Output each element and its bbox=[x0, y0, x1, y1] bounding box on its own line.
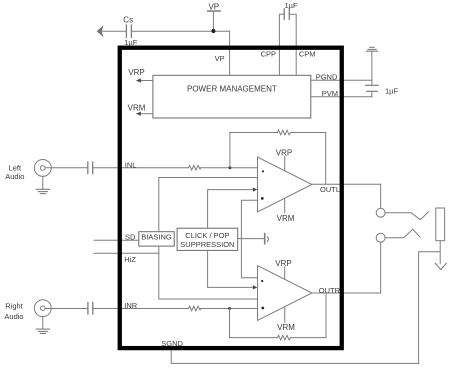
svg-text:VP: VP bbox=[215, 54, 225, 63]
wire: RI2 to op-amp U2 input bbox=[200, 308, 257, 310]
wire: feedback top left bbox=[230, 132, 278, 134]
wire: U2 feedback tap down bbox=[229, 309, 231, 338]
mark + input U2 bbox=[261, 280, 263, 282]
svg-text:Cs: Cs bbox=[123, 15, 133, 24]
label Left Audio bbox=[5, 163, 24, 181]
wire+arrow: VRM output bbox=[136, 112, 153, 116]
wire: RF1 to output bbox=[291, 133, 326, 185]
capacitor C-INR bbox=[88, 303, 93, 315]
svg-text:VRM: VRM bbox=[128, 104, 146, 113]
svg-text:1µF: 1µF bbox=[284, 1, 297, 10]
wire: J1 to ground bbox=[42, 176, 44, 189]
svg-text:OUTR: OUTR bbox=[319, 286, 341, 295]
wire: OUTL down to jack tip bbox=[380, 184, 382, 208]
wire+arrow: click/pop to U2 bbox=[208, 250, 258, 289]
wire: OUTL output bbox=[312, 183, 381, 185]
op-amp U2 bbox=[258, 266, 312, 321]
wire: VRM stub (U2) bbox=[284, 307, 286, 322]
wire: ground to PGND tee bbox=[371, 51, 373, 85]
connector J1 left audio bbox=[34, 159, 51, 176]
power management block bbox=[153, 75, 311, 118]
jack tip contact (L) bbox=[376, 208, 385, 217]
junction dot (U1 feedback tap) bbox=[229, 166, 232, 169]
capacitor Cs bbox=[126, 25, 131, 37]
svg-text:CPM: CPM bbox=[299, 50, 316, 59]
capacitor 1uF (PVM) bbox=[366, 85, 379, 91]
svg-text:VRM: VRM bbox=[277, 214, 295, 223]
wire: biasing to U2 bias input bbox=[159, 246, 258, 299]
wire: SGND out to right bbox=[171, 350, 418, 363]
wire: VRM stub (U1) bbox=[284, 199, 286, 214]
mark - input U2 bbox=[261, 307, 264, 310]
svg-text:VRP: VRP bbox=[276, 148, 292, 157]
wire: VRP stub (U2) bbox=[284, 267, 286, 279]
wire: cap bottom to PVM bbox=[371, 91, 373, 97]
wire: C-INL to INL pin and RI1 bbox=[93, 167, 189, 169]
junction dot VP node bbox=[211, 29, 215, 33]
wire: load bottom network bbox=[419, 241, 441, 364]
jack switch R bbox=[385, 229, 420, 238]
svg-text:INR: INR bbox=[124, 301, 138, 310]
mark - input U1 bbox=[261, 197, 264, 200]
ground (J2) bbox=[36, 329, 49, 333]
connector J2 right audio bbox=[34, 300, 51, 317]
svg-text:Audio: Audio bbox=[4, 312, 23, 321]
wire: VP node down into IC pin VP bbox=[229, 31, 231, 75]
wire: SD input bbox=[94, 239, 139, 241]
svg-text:1µF: 1µF bbox=[385, 86, 398, 95]
IC body bbox=[120, 48, 342, 348]
wire: click/pop to pop symbol bbox=[238, 238, 264, 240]
wire: OUTR output bbox=[312, 292, 381, 294]
wire: J1 to C-INL bbox=[45, 167, 87, 169]
capacitor C-INL bbox=[88, 162, 93, 174]
input arrow (Cs line) bbox=[97, 26, 103, 36]
wire: RI1 to op-amp U1 input bbox=[200, 167, 257, 169]
net label VP (top, underlined) bbox=[208, 3, 221, 32]
op-amp U1 bbox=[258, 157, 312, 212]
wire: PGND out bbox=[311, 79, 372, 81]
svg-text:CLICK / POP: CLICK / POP bbox=[185, 231, 229, 240]
wire: biasing to U1 bias input bbox=[159, 178, 258, 232]
wire: J2 to ground bbox=[42, 317, 44, 329]
load resistor (headphone) bbox=[436, 208, 445, 241]
label Right Audio bbox=[4, 302, 23, 321]
svg-text:VRP: VRP bbox=[275, 259, 291, 268]
svg-text:VRM: VRM bbox=[277, 323, 295, 332]
wire: RF2 to OUTR bbox=[291, 293, 326, 338]
pop/speaker symbol bbox=[265, 234, 269, 244]
wire: C-INR to INR pin and RI2 bbox=[93, 308, 189, 310]
wire: arrow to Cs capacitor bbox=[98, 30, 126, 32]
wire: PVM out bbox=[311, 96, 372, 98]
resistor RI1 bbox=[189, 165, 201, 170]
biasing block bbox=[139, 232, 174, 246]
resistor RF1 (U1 feedback) bbox=[278, 130, 291, 135]
jack ring contact (R) bbox=[376, 233, 385, 242]
wire+arrow: click/pop to U1 bbox=[208, 188, 258, 229]
capacitor C flying (CPP-CPM) 1uF bbox=[284, 9, 289, 20]
wire: J2 to C-INR bbox=[45, 308, 87, 310]
chassis ground arrow bbox=[435, 263, 446, 269]
svg-text:Audio: Audio bbox=[5, 172, 24, 181]
ground (top right) bbox=[366, 47, 377, 51]
svg-text:VRP: VRP bbox=[128, 68, 144, 77]
wire: load to chassis arrow bbox=[439, 252, 441, 264]
wire: flying cap left lead to CPP bbox=[279, 14, 284, 75]
jack switch L bbox=[385, 212, 428, 220]
wire: VRP stub (U1) bbox=[284, 157, 286, 171]
svg-text:INL: INL bbox=[125, 160, 137, 169]
svg-text:OUTL: OUTL bbox=[320, 185, 340, 194]
wire: jack ring down to OUTR bbox=[380, 242, 382, 293]
wire: feedback tap up bbox=[229, 133, 231, 168]
svg-text:BIASING: BIASING bbox=[141, 232, 172, 241]
resistor RF2 (U2 feedback) bbox=[278, 335, 291, 340]
svg-text:HiZ: HiZ bbox=[124, 255, 136, 264]
wire: Cs to VP node bbox=[131, 30, 229, 32]
wire+arrow: VRP output bbox=[136, 78, 153, 82]
wire: U2 feedback bottom bbox=[230, 337, 278, 339]
svg-text:SUPPRESSION: SUPPRESSION bbox=[180, 240, 234, 249]
wire: HiZ input bbox=[94, 252, 159, 254]
mark + input U1 bbox=[262, 170, 264, 172]
click/pop suppression block bbox=[177, 228, 238, 250]
ground (J1) bbox=[36, 189, 49, 193]
resistor RI2 bbox=[189, 306, 201, 311]
wire: U1 lower input to U2 upper input bbox=[241, 200, 257, 277]
svg-text:POWER MANAGEMENT: POWER MANAGEMENT bbox=[187, 84, 277, 93]
svg-text:CPP: CPP bbox=[261, 50, 276, 59]
svg-text:VP: VP bbox=[208, 3, 219, 12]
svg-text:Right: Right bbox=[5, 302, 23, 311]
svg-text:1µF: 1µF bbox=[124, 38, 137, 47]
wire: flying cap right lead to CPM bbox=[289, 14, 296, 75]
junction dot (U2 feedback tap) bbox=[228, 307, 231, 310]
